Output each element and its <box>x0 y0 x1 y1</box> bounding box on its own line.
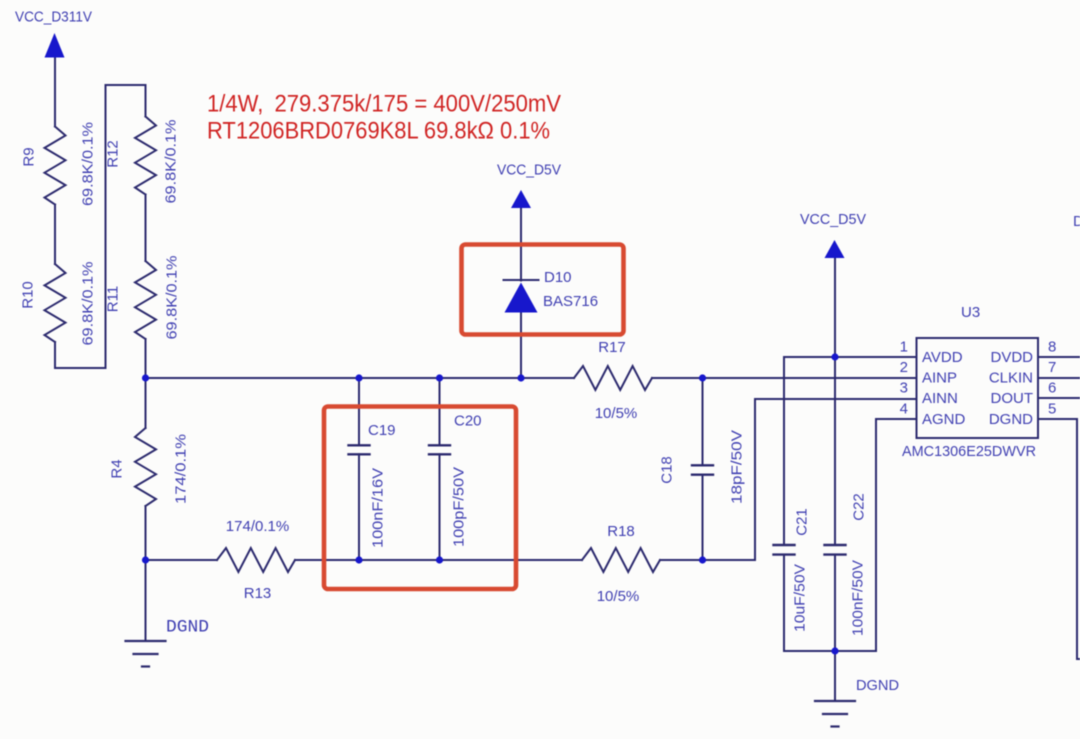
svg-text:174/0.1%: 174/0.1% <box>226 518 289 535</box>
svg-text:R11: R11 <box>105 286 122 312</box>
svg-text:DGND: DGND <box>989 411 1033 428</box>
svg-text:10uF/50V: 10uF/50V <box>792 564 809 632</box>
svg-text:R4: R4 <box>109 459 126 478</box>
svg-text:VCC_D5V: VCC_D5V <box>800 211 866 228</box>
svg-text:69.8K/0.1%: 69.8K/0.1% <box>164 256 181 340</box>
svg-text:R17: R17 <box>598 339 626 356</box>
svg-text:R13: R13 <box>244 585 272 602</box>
svg-text:DVDD: DVDD <box>990 349 1033 366</box>
svg-text:C22: C22 <box>851 493 868 521</box>
svg-text:1: 1 <box>900 339 908 356</box>
svg-text:AINN: AINN <box>922 390 958 407</box>
svg-text:C19: C19 <box>368 422 396 439</box>
svg-text:RT1206BRD0769K8L 69.8kΩ 0.1%: RT1206BRD0769K8L 69.8kΩ 0.1% <box>207 118 550 145</box>
svg-text:AVDD: AVDD <box>922 349 963 366</box>
svg-text:U3: U3 <box>961 304 980 321</box>
svg-text:18pF/50V: 18pF/50V <box>729 430 746 504</box>
svg-text:69.8K/0.1%: 69.8K/0.1% <box>163 120 180 204</box>
svg-text:AGND: AGND <box>922 411 966 428</box>
svg-text:100pF/50V: 100pF/50V <box>451 467 468 547</box>
svg-text:R9: R9 <box>21 147 38 166</box>
svg-text:100nF/16V: 100nF/16V <box>370 468 387 548</box>
svg-text:VCC_D5V: VCC_D5V <box>497 162 561 179</box>
svg-text:8: 8 <box>1048 339 1056 356</box>
svg-text:CLKIN: CLKIN <box>989 370 1033 387</box>
svg-text:69.8K/0.1%: 69.8K/0.1% <box>80 262 97 346</box>
svg-text:C20: C20 <box>454 413 482 430</box>
svg-text:DGND: DGND <box>166 618 209 638</box>
svg-text:AMC1306E25DWVR: AMC1306E25DWVR <box>902 443 1036 460</box>
svg-text:2: 2 <box>900 359 908 376</box>
svg-text:VCC_D311V: VCC_D311V <box>15 9 92 26</box>
svg-text:AINP: AINP <box>922 370 957 387</box>
svg-text:5: 5 <box>1048 400 1056 417</box>
svg-text:D10: D10 <box>544 269 572 286</box>
svg-text:DGND: DGND <box>856 677 899 694</box>
svg-text:D: D <box>1073 213 1080 230</box>
svg-text:69.8K/0.1%: 69.8K/0.1% <box>80 122 97 206</box>
svg-text:R12: R12 <box>105 140 122 168</box>
svg-text:DOUT: DOUT <box>991 390 1034 407</box>
svg-text:BAS716: BAS716 <box>543 293 598 310</box>
svg-text:6: 6 <box>1048 380 1056 397</box>
svg-text:R18: R18 <box>607 523 635 540</box>
svg-text:10/5%: 10/5% <box>595 405 638 422</box>
svg-text:100nF/50V: 100nF/50V <box>850 560 867 636</box>
svg-text:10/5%: 10/5% <box>597 588 640 605</box>
svg-text:C18: C18 <box>659 456 676 484</box>
svg-text:1/4W, 279.375k/175 = 400V/250m: 1/4W, 279.375k/175 = 400V/250mV <box>207 91 561 118</box>
svg-text:3: 3 <box>900 380 908 397</box>
svg-text:R10: R10 <box>20 281 37 309</box>
svg-text:7: 7 <box>1048 359 1056 376</box>
svg-text:174/0.1%: 174/0.1% <box>173 434 190 504</box>
svg-text:4: 4 <box>900 400 908 417</box>
svg-text:C21: C21 <box>794 508 811 536</box>
